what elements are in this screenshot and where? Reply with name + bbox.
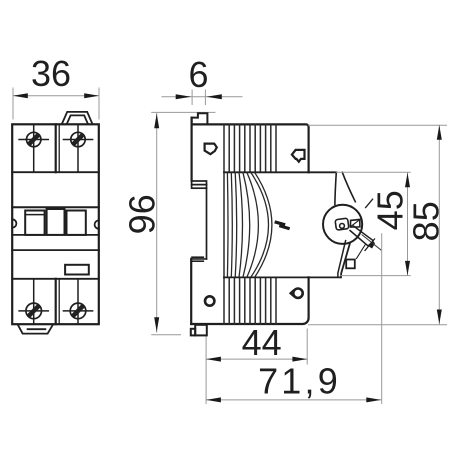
bottom ribs — [224, 277, 276, 324]
side body lower-left edge — [190, 259, 192, 324]
rivet dash middle — [276, 222, 288, 228]
dimension 71,9 arrow left — [206, 397, 221, 402]
toggle knob circle — [323, 205, 362, 244]
toggle band bottom line — [12, 234, 99, 236]
toggle lever pole 1 — [25, 211, 44, 235]
rivet circle lower-right — [293, 289, 302, 298]
svg-text:71,9: 71,9 — [258, 361, 341, 402]
breaker body outline — [12, 124, 99, 324]
lock tab square — [346, 260, 355, 269]
lever angle dash lower — [357, 245, 366, 259]
dimension 85 arrow bottom — [437, 310, 442, 325]
dimension 45 lines — [336, 172, 410, 275]
angle dash — [366, 199, 373, 207]
module divider top — [56, 124, 60, 172]
dimension 6 line — [162, 90, 242, 105]
middle vertical rib line — [223, 172, 225, 277]
dimension 36 arrow left — [13, 93, 28, 98]
front face lower wedge — [338, 241, 350, 278]
dimension 45 arrow top — [405, 173, 410, 188]
dimension 96 line — [152, 112, 215, 334]
top clip tab — [62, 112, 93, 124]
svg-text:85: 85 — [406, 201, 447, 241]
side body bottom edge — [191, 277, 308, 324]
screw terminal bottom-left — [19, 279, 48, 324]
toggle flag — [350, 219, 360, 227]
DIN tab top — [192, 113, 208, 124]
upper section bottom line — [224, 171, 336, 173]
centre box between toggles — [47, 209, 65, 235]
side body top edge — [192, 124, 309, 172]
side notch left — [12, 219, 16, 227]
toggle handle lever — [350, 226, 373, 246]
dimension 44 arrow right — [292, 357, 307, 362]
mid horizontal line — [12, 249, 99, 251]
svg-text:6: 6 — [188, 54, 208, 95]
DIN rail top hook — [192, 181, 207, 188]
rivet mark upper-right — [292, 150, 305, 162]
dimension 44 lines — [206, 329, 307, 404]
screw terminal top-left — [19, 124, 48, 172]
toggle pivot rounded square — [335, 218, 349, 230]
dimension 96 arrow top — [154, 114, 159, 129]
DIN channel back line — [206, 188, 208, 259]
screw terminal bottom-right — [63, 279, 92, 324]
dimension 36 arrow right — [84, 93, 99, 98]
dimension 71,9 lines — [206, 234, 382, 404]
dimension 71,9 arrow right — [366, 397, 381, 402]
dimension 45 arrow bottom — [405, 261, 410, 276]
dimension 96 text — [121, 194, 162, 234]
DIN rail bottom hook — [191, 257, 206, 261]
dimension 6 arrow left — [176, 94, 192, 99]
rivet mark upper-left — [205, 144, 217, 155]
dimension 36 line — [13, 88, 99, 119]
top ribs — [224, 124, 276, 172]
lever tip tick — [365, 239, 375, 251]
dimension 85 text — [406, 201, 447, 241]
bottom clip of side view — [191, 325, 207, 336]
svg-text:36: 36 — [31, 53, 71, 94]
toggle lever pole 2 — [67, 211, 86, 235]
dimension 44 arrow left — [206, 357, 221, 362]
dimension 6 arrow right — [206, 94, 222, 99]
bottom clip tab — [18, 325, 53, 333]
lower section top line — [224, 276, 341, 278]
rivet circle lower-left — [205, 296, 214, 305]
dimension 85 lines — [309, 125, 447, 325]
module divider bottom — [56, 279, 60, 324]
toggle band top line — [12, 206, 99, 208]
dimension 85 arrow top — [437, 125, 442, 140]
toggle pivot circle — [340, 224, 345, 229]
side notch right — [95, 220, 99, 228]
side body left edge — [191, 118, 193, 181]
bottom terminal section top line — [12, 278, 99, 280]
dimension 45 text — [370, 190, 411, 230]
label window — [65, 265, 89, 275]
screw terminal top-right — [63, 124, 92, 172]
lever tip — [368, 241, 376, 249]
lever centreline — [362, 235, 381, 250]
dimension 96 arrow bottom — [154, 317, 159, 332]
curved moulding lines — [227, 172, 272, 277]
front face upper wedge — [335, 172, 355, 204]
terminal section bottom line — [12, 171, 99, 173]
svg-text:44: 44 — [242, 322, 282, 363]
svg-text:45: 45 — [370, 190, 411, 230]
